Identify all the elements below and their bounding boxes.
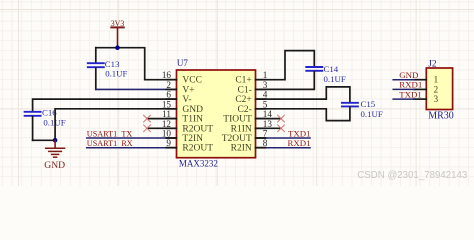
wire U7 pin 14 (TIOUT) stub — [256, 118, 282, 120]
svg-text:GND: GND — [44, 160, 65, 171]
svg-text:C15: C15 — [361, 99, 376, 109]
pin 1 stub of J2 — [393, 79, 426, 81]
wire net RXD1 from U7 pin 8 (R2IN) — [256, 147, 311, 149]
svg-text:R2OUT: R2OUT — [182, 144, 213, 154]
svg-text:3V3: 3V3 — [111, 19, 125, 28]
svg-text:6: 6 — [166, 90, 171, 100]
pin 10 stub left (T2IN) — [167, 137, 177, 139]
svg-text:7: 7 — [263, 129, 268, 139]
svg-text:13: 13 — [263, 119, 273, 129]
capacitor C15 — [342, 99, 383, 119]
svg-text:11: 11 — [162, 109, 171, 119]
no-ERC cross on pin 14 — [278, 115, 285, 122]
pin 13 stub right (R1IN) — [256, 127, 266, 129]
pin 7 stub right (T2OUT) — [256, 137, 266, 139]
wire C15 bottom to U7 pin 5 (C2-) — [256, 107, 350, 120]
pin 3 stub of J2 — [393, 98, 426, 100]
svg-text:10: 10 — [162, 129, 172, 139]
pin 2 stub left (V+) — [167, 88, 177, 90]
svg-text:T1IN: T1IN — [182, 115, 203, 125]
svg-text:U7: U7 — [177, 58, 188, 68]
svg-text:J2: J2 — [428, 60, 437, 70]
svg-text:R2IN: R2IN — [231, 144, 252, 154]
svg-text:C14: C14 — [324, 64, 339, 74]
svg-text:T2OUT: T2OUT — [222, 134, 252, 144]
svg-text:R1IN: R1IN — [231, 124, 252, 134]
pin 2 stub of J2 — [393, 88, 426, 90]
wire net USART1_RX to U7 pin 9 (R2OUT) — [87, 147, 177, 149]
svg-text:TXD1: TXD1 — [399, 89, 421, 99]
svg-text:C2-: C2- — [238, 105, 252, 115]
no-ERC cross on pin 12 — [144, 125, 151, 132]
svg-text:0.1UF: 0.1UF — [324, 74, 346, 84]
svg-text:14: 14 — [263, 109, 273, 119]
svg-text:C2+: C2+ — [235, 95, 251, 105]
svg-text:12: 12 — [162, 119, 172, 129]
svg-text:GND: GND — [399, 70, 418, 80]
junction GND node — [53, 138, 58, 143]
pin 6 stub left (V-) — [167, 98, 177, 100]
pin 3 stub right (C1-) — [256, 88, 266, 90]
svg-text:TXD1: TXD1 — [288, 128, 310, 138]
svg-text:T2IN: T2IN — [182, 134, 203, 144]
pin 11 stub left (T1IN) — [167, 118, 177, 120]
svg-text:0.1UF: 0.1UF — [105, 69, 127, 79]
wire U7 pin 12 (R2OUT) stub — [147, 127, 177, 129]
wire U7 pin 4 (C2+) to C15 top — [256, 87, 350, 102]
svg-text:9: 9 — [166, 138, 171, 148]
svg-text:USART1 RX: USART1 RX — [87, 139, 133, 148]
svg-text:0.1UF: 0.1UF — [361, 109, 383, 119]
svg-text:3: 3 — [263, 80, 268, 90]
pin 9 stub left (R2OUT) — [167, 147, 177, 149]
connector J2 body — [426, 68, 452, 110]
svg-text:4: 4 — [263, 90, 268, 100]
wire net TXD1 from U7 pin 7 (T2OUT) — [256, 137, 311, 139]
svg-text:16: 16 — [162, 70, 172, 80]
wire U7 pin 6 (V-) to C16 — [33, 99, 177, 111]
svg-text:MAX3232: MAX3232 — [179, 159, 218, 169]
wire U7 pin 15 (GND) down to GND junction — [55, 109, 176, 141]
svg-text:TIOUT: TIOUT — [223, 115, 252, 125]
no-ERC cross on pin 11 — [144, 115, 151, 122]
pin 12 stub left (R2OUT) — [167, 127, 177, 129]
pin 1 stub right (C1+) — [256, 79, 266, 81]
pin 16 stub left (VCC) — [167, 79, 177, 81]
capacitor C14 — [306, 64, 346, 84]
capacitor C13 — [88, 48, 128, 90]
junction 3V3 tap — [115, 45, 120, 50]
wire C16 bottom to GND junction — [33, 139, 56, 141]
wire C13 bottom to U7 pin 2 (V+) — [96, 88, 177, 90]
svg-text:3: 3 — [434, 94, 439, 104]
pin 5 stub right (C2-) — [256, 108, 266, 110]
svg-text:R2OUT: R2OUT — [182, 124, 213, 134]
pin 15 stub left (GND) — [167, 108, 177, 110]
wire 3V3 net: C13 top to U7 pin 16 (VCC) — [96, 48, 177, 80]
svg-text:GND: GND — [182, 105, 203, 115]
wire U7 pin 1 (C1+) to C14 top — [256, 51, 315, 80]
svg-text:V-: V- — [182, 95, 191, 105]
svg-text:MR30: MR30 — [428, 111, 454, 122]
svg-text:2: 2 — [166, 80, 171, 90]
svg-text:1: 1 — [263, 70, 268, 80]
svg-text:C1+: C1+ — [235, 76, 251, 86]
wire U7 pin 13 (R1IN) stub — [256, 127, 282, 129]
op-amp/IC U7 MAX3232 body — [177, 70, 256, 158]
wire U7 pin 11 (T1IN) stub — [147, 118, 177, 120]
svg-text:RXD1: RXD1 — [399, 80, 422, 90]
svg-text:RXD1: RXD1 — [288, 138, 311, 148]
wire net USART1_TX to U7 pin 10 (T2IN) — [87, 137, 177, 139]
wire C14 bottom to U7 pin 3 (C1-) — [256, 72, 315, 90]
svg-text:C13: C13 — [105, 59, 120, 69]
pin 14 stub right (TIOUT) — [256, 118, 266, 120]
svg-text:8: 8 — [263, 138, 268, 148]
svg-text:5: 5 — [263, 99, 268, 109]
svg-text:VCC: VCC — [182, 76, 202, 86]
svg-text:2: 2 — [434, 84, 439, 94]
power 3V3 symbol — [111, 19, 125, 48]
ground symbol GND — [44, 140, 65, 171]
svg-text:1: 1 — [434, 75, 439, 85]
pin 8 stub right (R2IN) — [256, 147, 266, 149]
no-ERC cross on pin 13 — [278, 125, 285, 132]
svg-text:CSDN @2301_78942143: CSDN @2301_78942143 — [357, 170, 467, 181]
capacitor C16 — [25, 108, 66, 141]
svg-text:15: 15 — [162, 99, 172, 109]
pin 4 stub right (C2+) — [256, 98, 266, 100]
svg-text:C1-: C1- — [238, 85, 252, 95]
svg-text:USART1 TX: USART1 TX — [87, 129, 133, 138]
svg-text:V+: V+ — [182, 85, 194, 95]
